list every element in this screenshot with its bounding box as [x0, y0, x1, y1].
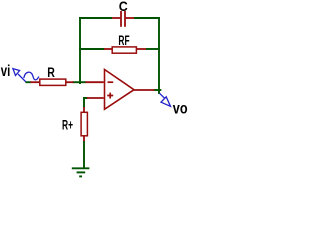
source marker vi (blue arrow) [13, 69, 39, 82]
svg-text:R: R [47, 65, 55, 80]
svg-text:R+: R+ [62, 118, 73, 133]
op-amp U1 [86, 70, 155, 110]
wire R+ to ground [83, 141, 85, 169]
wire left vertical (inverting node up to C) [79, 17, 81, 84]
capacitor C [112, 11, 134, 27]
label RF [118, 33, 129, 48]
label vi [1, 63, 11, 80]
output marker vo (blue arrow) [160, 93, 171, 106]
wire right vertical (output node up to C/RF) [158, 17, 160, 94]
wire top-right segment (C to output node) [134, 17, 160, 19]
svg-text:vo: vo [173, 101, 188, 118]
wire non-inverting input bend (R+ to op-amp) [84, 98, 88, 108]
op-amp inverting pin [86, 81, 104, 83]
resistor R [31, 79, 74, 85]
op-amp output pin [134, 89, 155, 91]
label vo [173, 101, 188, 118]
svg-text:C: C [119, 0, 128, 14]
resistor RF [104, 47, 146, 53]
label R [47, 65, 55, 80]
wire input row (R to op-amp inverting input), junction node [73, 81, 87, 83]
label C [119, 0, 128, 14]
wire RF row left (node to RF) [79, 48, 104, 50]
wire input row (vi source to R) [26, 81, 32, 83]
wire output row (op-amp out to output node) [154, 89, 162, 91]
resistor R+ [81, 107, 87, 141]
svg-text:vi: vi [1, 63, 11, 80]
source sine wave [24, 72, 39, 80]
wire top-left segment (node vi- to C) [79, 17, 112, 19]
ground [72, 168, 90, 176]
label R+ [62, 118, 73, 133]
op-amp non-inverting pin [87, 97, 104, 99]
op-amp minus symbol [108, 81, 114, 83]
wire RF row right (RF to output node) [146, 48, 160, 50]
op-amp plus symbol [107, 93, 113, 99]
svg-text:RF: RF [118, 33, 129, 48]
